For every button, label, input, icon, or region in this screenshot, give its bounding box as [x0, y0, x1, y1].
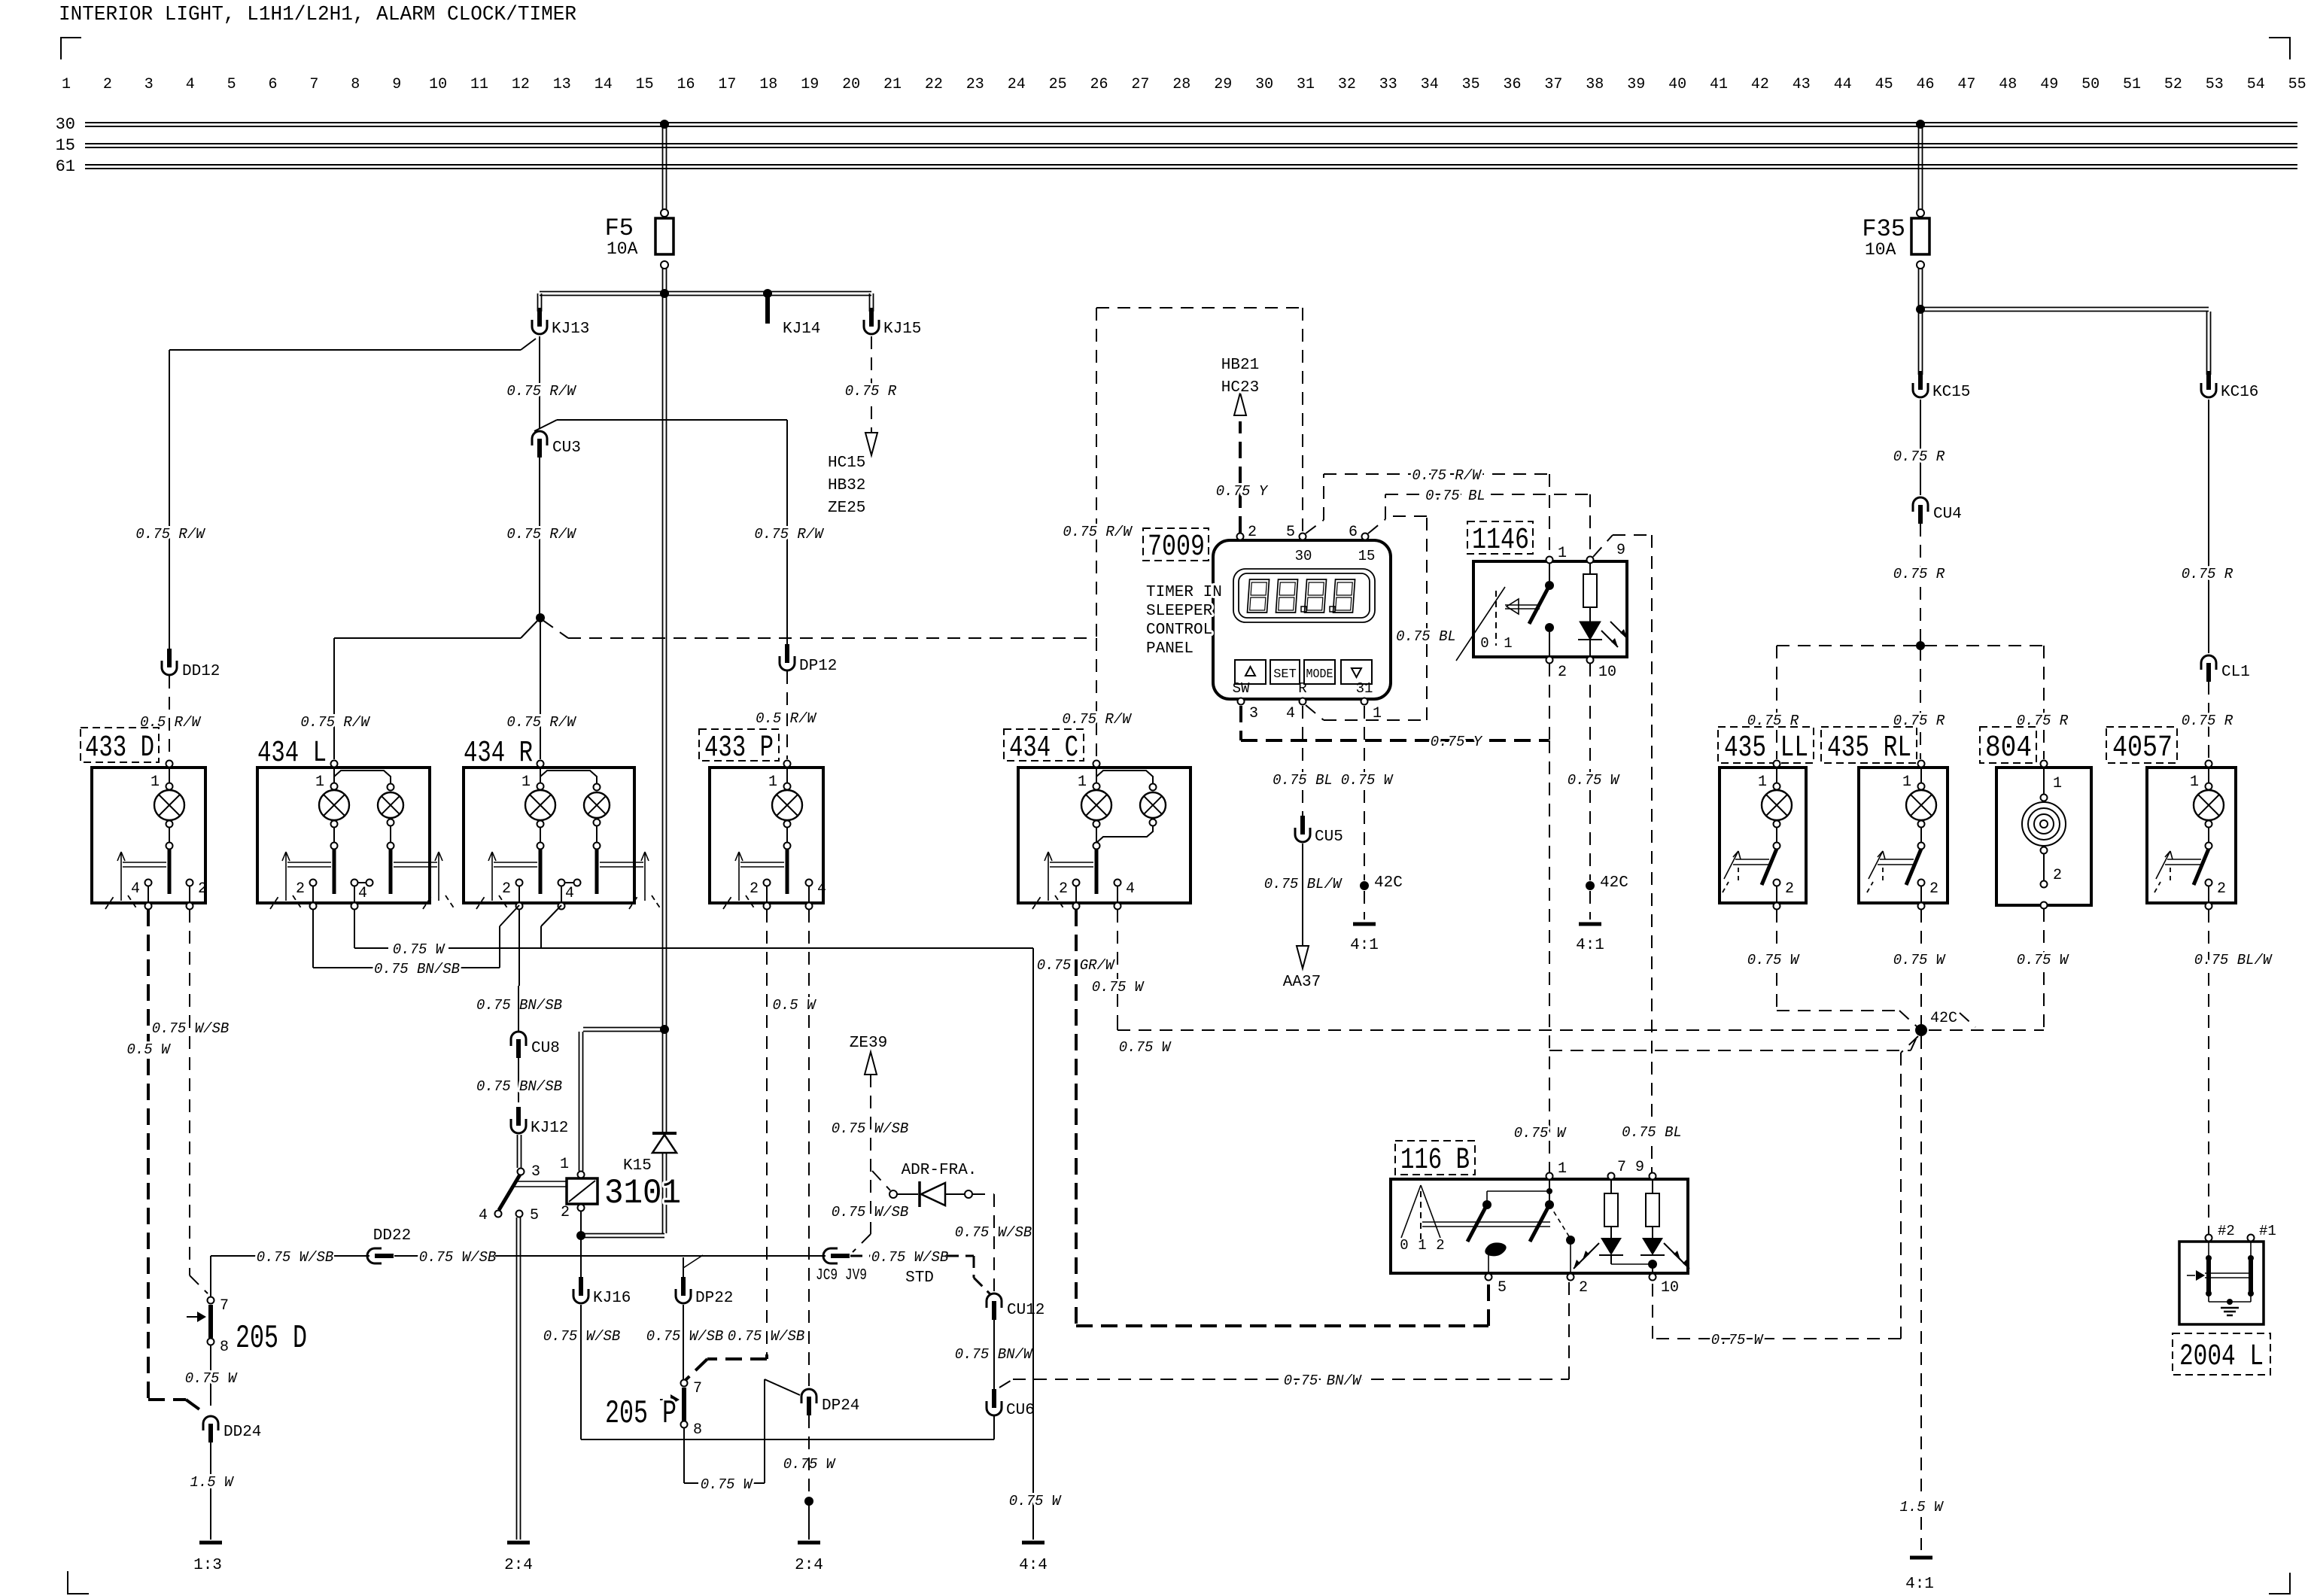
svg-text:53: 53: [2206, 76, 2224, 93]
116B resistor 7: [1610, 1180, 1612, 1193]
svg-text:0.75 R/W: 0.75 R/W: [754, 526, 824, 543]
svg-text:KJ14: KJ14: [783, 321, 820, 338]
wire 116B pin1 feed: [1549, 740, 1550, 1172]
wire KJ13 to CU3: [539, 336, 540, 429]
svg-text:1.5 W: 1.5 W: [190, 1474, 234, 1491]
relay pin 3: [518, 1169, 525, 1175]
wire timer pin4 to BL net: [1306, 705, 1324, 720]
svg-text:2: 2: [1248, 524, 1257, 541]
timer button MODE: [1304, 660, 1335, 684]
ground 4:4: [1022, 1541, 1045, 1545]
wire 804 pin2 to 42C: [2043, 909, 2045, 1030]
svg-text:2:4: 2:4: [795, 1557, 823, 1574]
svg-text:1: 1: [151, 774, 160, 791]
timer button down: [1341, 660, 1372, 684]
wire 116B feed branch to 42C: [1549, 1050, 1911, 1051]
label box 804: [1980, 727, 2036, 763]
wire W/SB rail seg3: [394, 1255, 420, 1257]
ground 1:3: [199, 1541, 222, 1545]
svg-text:K15: K15: [623, 1157, 652, 1175]
svg-text:51: 51: [2123, 76, 2141, 93]
wire drop to KC16: [2206, 312, 2208, 375]
fuse F35: [1911, 218, 1929, 254]
svg-text:2: 2: [2053, 867, 2062, 884]
svg-text:50: 50: [2081, 76, 2100, 93]
svg-text:1: 1: [1558, 1160, 1567, 1178]
svg-text:15: 15: [636, 76, 654, 93]
svg-text:0.75 W: 0.75 W: [1092, 979, 1145, 996]
pin 4 of 434C: [1114, 880, 1121, 886]
svg-text:1: 1: [2053, 775, 2062, 792]
1146 switch actuator: [1456, 587, 1505, 661]
svg-text:KJ16: KJ16: [593, 1290, 631, 1307]
junction on bus 30 at F5: [660, 120, 669, 129]
wire KJ15 dashed to arrow: [871, 406, 872, 433]
svg-text:0.75 R: 0.75 R: [1893, 566, 1945, 582]
svg-text:0.75 W/SB: 0.75 W/SB: [646, 1328, 724, 1345]
svg-text:10: 10: [1661, 1279, 1679, 1297]
wire CU4 dashed to node B: [1920, 524, 1921, 643]
lamp2 434L wire: [334, 771, 391, 783]
connector KC15: [1913, 383, 1928, 397]
wire BN/SB rail: [313, 967, 375, 968]
svg-text:5: 5: [227, 76, 236, 93]
reading light 434 R box: [464, 768, 634, 903]
pin 2 of 4057: [2206, 880, 2212, 886]
svg-text:433 D: 433 D: [85, 731, 154, 765]
svg-text:CU6: CU6: [1006, 1402, 1035, 1419]
relay coil K15 3101: [567, 1178, 598, 1204]
svg-text:2: 2: [1436, 1237, 1444, 1254]
svg-text:R: R: [1298, 680, 1306, 697]
relay pin 4: [495, 1211, 502, 1218]
svg-text:1146: 1146: [1472, 524, 1529, 558]
svg-text:0.75 BL/W: 0.75 BL/W: [2194, 952, 2273, 968]
svg-text:KJ13: KJ13: [552, 321, 589, 338]
svg-text:DD22: DD22: [373, 1227, 411, 1245]
svg-text:10A: 10A: [607, 239, 638, 259]
arrow from ZE39: [865, 1052, 877, 1075]
svg-text:CU8: CU8: [531, 1040, 560, 1057]
pin 4 of 433D: [145, 880, 152, 886]
bus bar 15: [85, 143, 2297, 144]
svg-text:24: 24: [1008, 76, 1026, 93]
svg-text:1: 1: [1418, 1237, 1426, 1254]
svg-text:31: 31: [1356, 680, 1373, 697]
node DP24 ground: [804, 1497, 813, 1506]
svg-text:12: 12: [512, 76, 530, 93]
wire drop to KJ14 node: [763, 289, 772, 298]
timer digits: [1247, 579, 1269, 613]
wire 205D pin7 riser: [210, 1256, 211, 1297]
fuse F5: [655, 218, 674, 254]
svg-text:15: 15: [1358, 548, 1376, 564]
wire 1146 pin2 down: [1549, 664, 1550, 740]
svg-text:7009: 7009: [1148, 530, 1205, 564]
svg-text:1: 1: [1758, 774, 1767, 791]
svg-text:#1: #1: [2259, 1223, 2276, 1239]
relay linkage: [515, 1181, 567, 1182]
connector KJ12: [511, 1119, 526, 1133]
switch 205 D: [208, 1297, 214, 1304]
lamp2 434L: [388, 784, 394, 791]
wire 42C to 116B pin10: [1901, 1036, 1918, 1053]
connector KJ15: [864, 320, 879, 334]
connector CL1: [2201, 655, 2216, 670]
svg-text:18: 18: [759, 76, 777, 93]
svg-text:10: 10: [1598, 664, 1616, 681]
switch 4057: [2206, 843, 2212, 850]
wire 433P pin4 dashed: [808, 910, 810, 1388]
svg-text:0: 0: [1400, 1237, 1408, 1254]
wire 433D pin4 0.5W: [147, 910, 150, 1400]
switch 1146 box: [1473, 561, 1627, 657]
fuse F35 top terminal: [1917, 209, 1924, 217]
svg-text:1:3: 1:3: [193, 1557, 222, 1574]
svg-text:434 R: 434 R: [464, 737, 533, 771]
node B: [1916, 641, 1925, 650]
wire 205P pin8 to DP24: [683, 1428, 685, 1483]
lamp2 434C wire top: [1096, 771, 1153, 783]
connector CU5: [1295, 828, 1310, 842]
wire node A to timer area (dashed): [543, 620, 568, 638]
bed light 435 LL box: [1720, 768, 1806, 903]
switch 433P: [784, 843, 791, 850]
svg-text:1: 1: [1504, 635, 1512, 652]
lamp2 434R wire: [540, 771, 597, 783]
svg-text:4:4: 4:4: [1019, 1557, 1048, 1574]
arrow to HB21: [1234, 393, 1246, 415]
wire R/W dashed riser: [1096, 638, 1097, 759]
svg-text:ADR-FRA.: ADR-FRA.: [902, 1162, 978, 1179]
svg-text:42C: 42C: [1600, 874, 1628, 892]
wire KJ16 down: [580, 1305, 582, 1439]
buzzer 804: [2041, 795, 2048, 801]
svg-text:47: 47: [1957, 76, 1975, 93]
svg-text:STD: STD: [905, 1269, 934, 1287]
wire 434C pin4 W: [1117, 910, 1118, 1026]
diode ADR-FRA: [918, 1181, 921, 1207]
svg-text:29: 29: [1214, 76, 1232, 93]
switch1 434R: [537, 843, 544, 850]
lamp2 434C wire bottom: [1096, 826, 1153, 843]
wire DP22 to 205P pin7: [683, 1305, 684, 1379]
svg-text:5: 5: [1286, 524, 1295, 541]
116B LED 9 arrows: [1664, 1243, 1680, 1260]
pin 2 of 433P: [764, 880, 771, 886]
svg-text:2: 2: [1059, 880, 1068, 898]
svg-text:205 D: 205 D: [236, 1320, 307, 1357]
116B contact 2: [1566, 1236, 1575, 1245]
ground 4:1 mid: [1579, 923, 1601, 926]
svg-text:4: 4: [186, 76, 195, 93]
svg-text:4: 4: [479, 1207, 488, 1224]
svg-text:0.5 R/W: 0.5 R/W: [140, 714, 201, 731]
svg-text:KC15: KC15: [1932, 384, 1970, 401]
svg-text:0.75 R/W: 0.75 R/W: [135, 526, 205, 543]
svg-text:0.75 R: 0.75 R: [2017, 713, 2069, 729]
connector JC9 JV9: [823, 1248, 838, 1263]
wire node to KC16 drop: [1920, 307, 2209, 309]
svg-text:AA37: AA37: [1283, 974, 1321, 991]
timer pin 5: [1300, 534, 1306, 540]
node 42C mid: [1586, 881, 1595, 890]
svg-text:0.75 W/SB: 0.75 W/SB: [152, 1020, 230, 1037]
116B wire pin1 to pivots: [1549, 1180, 1550, 1201]
label box 1146: [1467, 521, 1533, 554]
timer display bezel: [1233, 569, 1375, 622]
arrow to HC15: [865, 433, 877, 455]
pin 2 of 435LL: [1774, 880, 1780, 886]
svg-text:7: 7: [693, 1380, 702, 1397]
wire CU8 top: [518, 986, 519, 1032]
main trunk double wire: [662, 296, 664, 1132]
svg-text:CU5: CU5: [1315, 828, 1343, 846]
wire DP24 down: [808, 1415, 810, 1496]
node below F35: [1916, 305, 1925, 314]
svg-text:8: 8: [351, 76, 360, 93]
wire 433P pin2 dashed: [766, 910, 768, 1354]
svg-text:8: 8: [220, 1339, 229, 1356]
svg-text:4: 4: [358, 885, 367, 902]
svg-text:433 P: 433 P: [704, 731, 774, 765]
wire 434R pin2 to CU8: [518, 910, 520, 986]
svg-text:3: 3: [144, 76, 154, 93]
wire node to KJ16: [580, 1238, 582, 1281]
wire CL1 to 4057 pin1: [2208, 682, 2209, 759]
svg-text:SW: SW: [1233, 680, 1250, 697]
wire to 804 pin1: [2043, 646, 2045, 759]
svg-text:52: 52: [2164, 76, 2182, 93]
dimmer 116 B box: [1391, 1179, 1688, 1273]
116B LED common: [1611, 1263, 1653, 1265]
wire KC15 to CU4: [1920, 400, 1921, 495]
connector KJ14: [765, 296, 770, 324]
svg-text:HC15: HC15: [828, 454, 865, 472]
pin 1 of 1146: [1546, 557, 1553, 564]
label box 434 C: [1004, 729, 1084, 761]
svg-text:4: 4: [1286, 705, 1295, 722]
2004L internal ground: [2221, 1307, 2239, 1309]
svg-text:0.75 W/SB: 0.75 W/SB: [832, 1120, 909, 1137]
wire ZE39 dashed: [870, 1075, 871, 1234]
116B lever 1: [1482, 1200, 1492, 1209]
frame corner bottom-left: [67, 1593, 89, 1594]
timer pin 4: [1300, 698, 1306, 705]
svg-text:0.75 Y: 0.75 Y: [1216, 483, 1269, 500]
pin 5 of 116B: [1485, 1274, 1492, 1281]
svg-text:0.5 W: 0.5 W: [126, 1041, 171, 1058]
svg-text:CONTROL: CONTROL: [1146, 622, 1212, 639]
reading light 434 L box: [257, 768, 430, 903]
svg-text:30: 30: [56, 115, 75, 134]
wire 205D pin8 down: [210, 1345, 211, 1406]
svg-text:16: 16: [677, 76, 695, 93]
wire DP24 to ground: [808, 1505, 810, 1540]
svg-text:434 C: 434 C: [1009, 731, 1078, 765]
svg-text:4: 4: [817, 880, 826, 898]
wire CU8 to KJ12: [518, 1058, 519, 1102]
svg-text:CU12: CU12: [1007, 1302, 1045, 1319]
svg-text:42C: 42C: [1930, 1010, 1957, 1027]
svg-text:0.75 W/SB: 0.75 W/SB: [257, 1249, 334, 1266]
wire to 435LL pin1: [1776, 646, 1777, 759]
svg-text:41: 41: [1710, 76, 1728, 93]
node A: [536, 613, 545, 622]
svg-text:55: 55: [2288, 76, 2306, 93]
svg-text:4: 4: [1126, 880, 1135, 898]
svg-text:0.75 W: 0.75 W: [185, 1370, 238, 1387]
switch2 434L: [388, 843, 394, 850]
wire 1146 pin10 down: [1589, 664, 1591, 880]
connector CU8: [511, 1032, 526, 1046]
svg-text:0.75 BN/SB: 0.75 BN/SB: [476, 1078, 562, 1095]
wire 434R pin2 diag to BNSB rail: [500, 905, 519, 926]
pin 2 of 804: [2043, 854, 2045, 880]
timer 7009 box: [1213, 540, 1391, 699]
svg-text:0.75 W: 0.75 W: [1119, 1039, 1172, 1056]
wire 42C ground tail: [1920, 1517, 1922, 1550]
svg-text:30: 30: [1255, 76, 1273, 93]
svg-text:DD24: DD24: [223, 1424, 261, 1441]
connector KJ16: [573, 1289, 588, 1303]
stub diagonal near 42C: [1960, 1013, 1975, 1027]
116B LED 7 arrows: [1583, 1243, 1599, 1260]
svg-text:2: 2: [561, 1204, 570, 1221]
svg-text:8: 8: [693, 1421, 702, 1439]
svg-text:32: 32: [1338, 76, 1356, 93]
svg-text:2: 2: [198, 880, 207, 898]
timer pin 1: [1361, 698, 1368, 705]
svg-text:5: 5: [1498, 1279, 1507, 1297]
lamp1 434R: [537, 761, 544, 768]
wire KC16 to CL1: [2208, 400, 2209, 653]
timer button SET: [1270, 660, 1300, 684]
wire fuse F35 to node: [1918, 269, 1920, 308]
pin 10 of 116B: [1650, 1274, 1656, 1281]
wire W/SB rail seg4: [495, 1255, 826, 1257]
svg-text:435 LL: 435 LL: [1724, 731, 1808, 765]
svg-text:9: 9: [392, 76, 401, 93]
svg-text:42: 42: [1751, 76, 1769, 93]
wire 4057 to 2004L pin2: [2208, 1230, 2209, 1234]
bus bar 61: [85, 164, 2297, 166]
pin #2 of 2004L: [2206, 1235, 2212, 1242]
svg-text:61: 61: [56, 157, 75, 176]
wire node A to 434R pin1: [540, 620, 541, 759]
svg-text:3101: 3101: [604, 1174, 681, 1213]
wire CU3 to node A: [539, 458, 540, 616]
lamp 4057: [2206, 761, 2212, 768]
wire 434L pin4 down: [354, 910, 355, 948]
wire relay pin2 down: [580, 1211, 582, 1233]
svg-text:20: 20: [842, 76, 860, 93]
wire CU5 to AA37: [1302, 844, 1303, 945]
svg-text:JC9 JV9: JC9 JV9: [816, 1267, 867, 1284]
svg-text:40: 40: [1668, 76, 1686, 93]
svg-text:1: 1: [768, 774, 777, 791]
svg-text:MODE: MODE: [1306, 667, 1333, 682]
switch 435LL: [1774, 843, 1780, 850]
lamp 433D: [166, 761, 173, 768]
svg-text:DP22: DP22: [695, 1290, 733, 1307]
svg-text:11: 11: [470, 76, 488, 93]
svg-text:PANEL: PANEL: [1146, 640, 1194, 658]
pin 2 of 433D: [187, 880, 193, 886]
wire 433P pin2 to 205P pin7: [765, 1354, 768, 1359]
wire bus30 to fuse F35: [1918, 126, 1920, 209]
svg-text:2: 2: [1929, 880, 1939, 898]
svg-text:DD12: DD12: [182, 663, 220, 680]
svg-text:4: 4: [565, 885, 574, 902]
pin 2 of 434R: [516, 880, 523, 886]
ground 2:4 mid: [798, 1541, 820, 1545]
svg-text:4:1: 4:1: [1576, 937, 1604, 954]
svg-text:0.5 R/W: 0.5 R/W: [756, 710, 816, 727]
interior light 433 D box: [92, 768, 205, 903]
pin 10 of 1146: [1587, 657, 1594, 664]
switch 434C: [1093, 843, 1100, 850]
svg-text:0.75 BL: 0.75 BL: [1622, 1124, 1682, 1141]
wire R/W dashed to timer pin5: [1096, 308, 1097, 637]
pin 4 of 434L: [351, 880, 358, 886]
116B LED 7: [1601, 1238, 1622, 1255]
column ruler 1-55: [62, 76, 2306, 93]
pin #1 of 2004L: [2248, 1235, 2255, 1242]
svg-text:35: 35: [1462, 76, 1480, 93]
wire bus30 to fuse F5: [662, 126, 664, 209]
svg-text:0.75 R/W: 0.75 R/W: [506, 526, 576, 543]
svg-text:0: 0: [1480, 635, 1488, 652]
wire timer pin5 to 1146 pin1: [1306, 520, 1324, 534]
label box 435 RL: [1821, 727, 1917, 763]
connector CU4: [1913, 497, 1928, 512]
svg-text:0.75 W: 0.75 W: [1747, 952, 1800, 968]
lamp 435LL: [1774, 761, 1780, 768]
svg-text:27: 27: [1131, 76, 1149, 93]
wire W/SB dashed to STD corner: [947, 1255, 974, 1257]
switch2 434R: [594, 843, 601, 850]
connector KC16: [2201, 383, 2216, 397]
svg-text:0.75 W/SB: 0.75 W/SB: [832, 1204, 909, 1221]
pin 1 of 804: [2041, 761, 2048, 768]
svg-text:34: 34: [1421, 76, 1439, 93]
svg-text:33: 33: [1379, 76, 1397, 93]
fuse F35 bottom terminal: [1917, 261, 1924, 269]
svg-text:3: 3: [531, 1163, 540, 1181]
pin 7 of 116B: [1608, 1173, 1615, 1180]
svg-text:26: 26: [1090, 76, 1108, 93]
wire timer pin4 to CU5: [1302, 706, 1303, 822]
svg-text:DP12: DP12: [799, 658, 837, 675]
svg-text:28: 28: [1172, 76, 1190, 93]
svg-text:0.75 W: 0.75 W: [2017, 952, 2069, 968]
label box 433 P: [699, 729, 779, 761]
svg-text:KJ15: KJ15: [883, 321, 921, 338]
svg-text:0.5 W: 0.5 W: [772, 997, 816, 1014]
svg-text:1: 1: [1902, 774, 1911, 791]
svg-text:44: 44: [1834, 76, 1852, 93]
svg-text:2: 2: [1785, 880, 1794, 898]
svg-text:14: 14: [594, 76, 613, 93]
node 42C left: [1360, 881, 1369, 890]
wire 435RL pin2 to 42C: [1920, 910, 1922, 1025]
wire DP12 rail: [534, 420, 557, 431]
116B resistor 9: [1652, 1180, 1653, 1193]
svg-text:0.75 R/W: 0.75 R/W: [300, 714, 370, 731]
wire to ADR diode: [872, 1171, 890, 1190]
wire DP12 to 433P pin1: [786, 671, 788, 759]
